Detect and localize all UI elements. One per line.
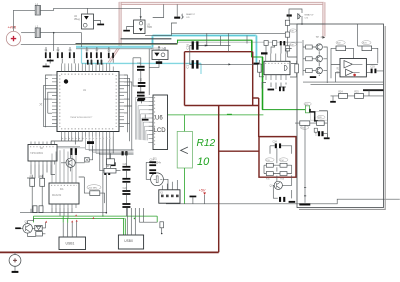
transistor T3	[316, 67, 322, 73]
wire R24 R25 links	[331, 90, 384, 99]
wire crystal links	[146, 162, 168, 189]
capacitor bank C7	[96, 50, 102, 58]
svg-text:C24: C24	[273, 141, 278, 143]
wire vertical from pink top to 7805 area	[153, 4, 164, 17]
ferrite bead L2	[35, 26, 40, 37]
svg-text:C20: C20	[123, 164, 128, 166]
wire black bus above MCU	[76, 42, 178, 44]
diode D2	[85, 158, 90, 162]
wire pink bus right vertical drop to TP header	[322, 2, 325, 36]
wire X3 top stubs	[162, 180, 177, 190]
diode D5	[298, 14, 301, 19]
svg-text:C1: C1	[45, 50, 49, 52]
ground near +5V	[190, 196, 197, 204]
svg-text:202 MHz: 202 MHz	[89, 187, 98, 189]
capacitor C15	[149, 169, 156, 174]
capacitor C27 bar top-left of U4	[261, 52, 268, 54]
ground at U2	[97, 24, 104, 26]
ground at C30	[324, 137, 330, 139]
capacitor bank C9 second row	[87, 60, 92, 65]
capacitor C6 top bar	[287, 14, 292, 16]
svg-text:+4V5: +4V5	[8, 26, 17, 30]
capacitor column C23	[122, 203, 130, 208]
wire thick segment y90	[363, 89, 384, 91]
IC U7 bottom-left	[49, 183, 79, 204]
connector X3	[159, 190, 180, 203]
resistor R20 above U4	[264, 41, 268, 46]
resistor TP base 1	[306, 45, 313, 49]
svg-text:C22: C22	[123, 188, 128, 190]
capacitor C12	[138, 79, 146, 87]
wire LCD pin riser bundle	[136, 98, 149, 143]
pink net terminal arrow	[322, 36, 325, 39]
resistor R4 vertical	[40, 176, 45, 186]
wire maroon bottom rail	[0, 251, 219, 253]
wire R22 R23 links	[331, 24, 378, 78]
capacitor small above R7	[104, 170, 110, 175]
wire green net from bus to right (selected net)	[178, 40, 311, 109]
capacitor bank C4	[86, 50, 92, 58]
capacitor bar col top	[122, 151, 128, 155]
capacitor at Q1	[70, 148, 77, 155]
svg-text:TP: TP	[316, 36, 319, 39]
capacitor C26 above U4	[280, 41, 286, 45]
wire U2 right to ground	[94, 21, 101, 24]
wire R3 R4 stubs	[32, 175, 42, 213]
resistor R26 green highlighted	[304, 102, 311, 113]
U7 top pins	[52, 149, 76, 183]
resistor R13 with oval label	[265, 158, 274, 167]
red net arrow left	[45, 221, 47, 223]
red error dot on U5	[353, 74, 356, 77]
svg-text:C7: C7	[96, 50, 100, 52]
wire C16 right with junction	[199, 44, 231, 46]
wire U3 left ground	[127, 27, 134, 30]
wire bottom net y212.7	[20, 212, 106, 214]
wire black long net y33.4	[171, 32, 285, 34]
svg-text:C17: C17	[185, 63, 189, 69]
resistor R7 horizontal	[90, 191, 100, 196]
diode pair D3	[35, 225, 42, 230]
wire R7 stubs	[79, 177, 105, 203]
capacitor C28 under U4	[279, 87, 285, 92]
svg-text:R15: R15	[266, 179, 271, 181]
resistor R28	[317, 115, 325, 125]
component small box	[107, 159, 115, 165]
battery B2 bottom-left circle	[9, 255, 21, 267]
capacitor C29 right of U5	[370, 66, 376, 73]
wire maroon horizontal y51.7	[185, 51, 253, 53]
resistor R16 lower	[280, 172, 287, 181]
IC X2 analog switch	[28, 145, 57, 162]
oscillator label oval	[87, 185, 101, 190]
svg-text:U6: U6	[155, 116, 163, 122]
capacitor C11	[137, 63, 145, 71]
svg-text:C2: C2	[57, 50, 61, 52]
resistor R3 vertical	[0, 0, 35, 186]
wire X2 bottom wires down	[27, 165, 55, 213]
ground under transistor ground2	[332, 100, 334, 101]
resistor R17 vertical column	[285, 20, 289, 25]
wire U1 right pins to riser bundle	[124, 75, 132, 150]
wire R12 bottom green	[184, 168, 186, 204]
battery B1 +4V5 source circle	[6, 31, 20, 45]
wire battery to ferrite L2	[21, 32, 35, 34]
resistor TP base 2	[306, 57, 313, 61]
annotation light box	[311, 112, 328, 121]
svg-text:C/6: C/6	[305, 17, 309, 19]
wire cyan net left segment above MCU	[76, 46, 153, 49]
svg-text:C29: C29	[370, 66, 375, 68]
pin number texture below MCU	[62, 138, 113, 140]
ground at cluster	[289, 201, 296, 203]
svg-text:MAX232: MAX232	[52, 194, 62, 197]
resistor R22 with oval	[336, 41, 346, 51]
svg-text:74HC4051N: 74HC4051N	[30, 152, 43, 155]
wire olive bus above MCU second line	[76, 44, 178, 46]
transistor T2	[316, 56, 322, 62]
capacitor C17	[185, 60, 198, 68]
wire gray long net y42	[178, 41, 303, 43]
capacitor bar above LCD bundle	[87, 141, 94, 144]
wire U4 left link	[259, 60, 296, 77]
resistor R24 bottom right	[338, 92, 347, 99]
U1 bottom pins	[62, 132, 114, 137]
wire maroon vertical from C17 area	[184, 52, 186, 106]
wire verticals between nets	[207, 33, 247, 51]
wire cyan net upper segment to right	[153, 34, 257, 37]
ground small right	[330, 101, 336, 103]
wire VBUS pink bus top horizontal	[119, 2, 324, 5]
small box C31	[314, 128, 317, 132]
ground above MCU left	[47, 60, 54, 64]
wire battery rail to bus	[21, 44, 76, 46]
svg-text:NMAY'07: NMAY'07	[305, 14, 315, 17]
capacitor column C21	[122, 178, 130, 183]
resistor R15 lower	[266, 172, 273, 181]
wire U3 right jog to cap	[145, 23, 177, 36]
wire jog up into 7805 line	[88, 7, 141, 9]
svg-text:R12: R12	[197, 138, 216, 149]
wire ferrite L2 to caps junction	[40, 32, 81, 34]
resistor R29 left of U4	[258, 64, 262, 72]
pin label texture MCU bottom	[61, 128, 114, 130]
wire maroon jog	[253, 97, 259, 99]
resistor R11 vertical	[160, 222, 164, 235]
capacitor bar small mid	[111, 162, 116, 166]
resistor TP base 3	[306, 69, 313, 73]
wire holder stubs	[149, 60, 159, 68]
ground at U3	[123, 30, 130, 32]
frame big box right	[297, 24, 385, 209]
wire green drops to USB1 pins	[63, 216, 67, 223]
svg-text:AMS1117 3V3: AMS1117 3V3	[151, 48, 167, 51]
wire cap C5 up to pink	[176, 4, 178, 16]
wire Q2 diode links	[28, 218, 46, 236]
capacitor column C22	[122, 188, 130, 195]
transistor Q2 bottom-left corner	[23, 221, 33, 233]
X2 bottom pins	[31, 161, 55, 165]
X2 top pins	[31, 142, 55, 145]
svg-text:C8: C8	[108, 50, 112, 52]
wire C17 right to IC U4	[199, 63, 263, 65]
wire top right net y24	[289, 9, 324, 24]
wire maroon vertical x252.7	[252, 52, 254, 106]
crystal G1	[151, 173, 164, 186]
ground under C13	[137, 99, 144, 101]
diode pair D4	[36, 232, 43, 236]
ground under cap bank	[43, 66, 50, 68]
wire gray net under cyan left	[76, 48, 153, 50]
wire pink bus left vertical drop to MCU	[119, 2, 122, 46]
capacitor C16	[185, 41, 198, 49]
wire cap stub	[141, 100, 143, 104]
pin label texture U7	[51, 184, 77, 186]
wire U2 top feed	[87, 8, 89, 14]
junction dot y24	[301, 23, 303, 25]
wire cyan net drop to capacitor	[255, 36, 257, 63]
wire green bottom bus left drop	[33, 216, 35, 222]
USB connector USB1	[59, 237, 86, 250]
wire caps left link	[133, 58, 141, 92]
tiny cross marker	[40, 103, 43, 106]
wire pink bus diagonal into MCU top-right	[109, 46, 121, 64]
junction dot on cyan	[158, 46, 160, 48]
red net arrow mid	[75, 214, 94, 219]
resistor R25 bottom right	[354, 92, 363, 99]
svg-text:C4: C4	[86, 50, 90, 52]
U6 left pins	[149, 98, 153, 143]
USB connector USB2	[118, 235, 143, 249]
maroon box transistor cluster outline	[259, 137, 296, 178]
wire maroon long vertical x218.7	[218, 106, 220, 253]
+5V flag	[203, 192, 206, 203]
capacitor C25 bottom cluster	[279, 197, 285, 202]
wire Q1 area links	[61, 146, 93, 171]
wire battery to ferrite L1	[14, 10, 36, 27]
pin label texture MCU left	[59, 75, 61, 127]
resistor R23 with oval	[362, 41, 372, 51]
svg-text:U5 LM: U5 LM	[337, 67, 340, 74]
wire green bottom bus line 1	[34, 215, 158, 217]
wire USB2 right jogs	[139, 221, 157, 223]
junction dots	[206, 45, 207, 46]
wire R8 links	[100, 153, 121, 171]
wire U1 left side loop wires	[44, 75, 52, 127]
green tick on maroon vertical	[227, 113, 232, 115]
battery holder G2 box	[151, 48, 169, 60]
capacitor column C20	[122, 164, 130, 171]
wire green bottom bus line 2	[34, 217, 125, 219]
resistor R19	[285, 43, 296, 51]
svg-text:NMAY'07: NMAY'07	[186, 13, 196, 16]
label NMAY07	[305, 14, 315, 20]
resistor R6 vertical small	[39, 206, 43, 213]
resistor R5 vertical small	[33, 206, 37, 213]
microcontroller U1 AT90USB1287 body	[57, 72, 119, 132]
wire U1 top pin risers	[62, 63, 110, 66]
resistor R21 above U4	[273, 41, 277, 46]
resistor R27	[300, 121, 310, 129]
resistor under holder	[156, 61, 162, 64]
wire cyan column drop	[148, 49, 150, 96]
op-amp U5 box	[337, 59, 367, 77]
wire transistor column links	[303, 40, 327, 83]
capacitor bar at cyan end	[254, 63, 260, 65]
svg-text:10: 10	[197, 156, 210, 168]
svg-text:C16: C16	[185, 44, 189, 50]
capacitor C14	[149, 159, 156, 166]
junction dots bottom bus	[102, 212, 107, 217]
ground mid column	[142, 115, 149, 121]
LCD module U6 box	[153, 95, 168, 150]
wire holder top stub	[159, 47, 165, 50]
wire ferrite L1 to regulator	[40, 8, 87, 10]
net tick marks	[304, 187, 306, 196]
wire maroon horizontal y105.5	[185, 105, 259, 107]
wire MCU bottom pins down-left to X2	[51, 137, 82, 145]
svg-text:R8: R8	[106, 166, 110, 168]
label C5	[181, 13, 196, 19]
svg-text:USBX: USBX	[124, 239, 134, 243]
wire C16 left link	[190, 46, 192, 65]
wire resistor column links	[288, 25, 298, 57]
capacitor C5 top bar	[174, 17, 180, 19]
transistor Q3 in cluster	[270, 181, 283, 189]
svg-text:R16: R16	[280, 179, 285, 181]
wire battery positive up	[14, 27, 16, 31]
svg-text:TMPA "AT90USB128T": TMPA "AT90USB128T"	[70, 116, 93, 119]
transistor Q1	[66, 158, 75, 167]
svg-text:VReg: VReg	[74, 19, 80, 21]
pin label texture MCU top	[61, 73, 114, 75]
wire U3 feed with arrow	[140, 8, 142, 20]
capacitor bank C1 above MCU	[45, 50, 51, 58]
wire maroon branch y151	[219, 150, 259, 152]
resistor R30 right of U4	[295, 64, 299, 73]
wire R12 top green	[184, 115, 186, 131]
capacitor bank C8	[108, 50, 114, 58]
junction dot green bus	[134, 218, 136, 220]
pin label texture MCU right	[115, 75, 117, 127]
wire inner vertical to bottom ground	[304, 125, 306, 202]
wire green net R12 top link	[166, 114, 263, 116]
wire Q3 links	[273, 175, 291, 198]
wire U5 links	[331, 65, 383, 83]
voltage regulator U3 7805	[134, 20, 153, 34]
U1 left pins	[52, 75, 57, 127]
wire thick dark bus top middle	[121, 38, 172, 40]
ferrite bead L1	[35, 4, 40, 15]
ground bottom inside box	[299, 203, 310, 205]
svg-text:LCD: LCD	[154, 128, 167, 134]
svg-text:C14: C14	[150, 159, 155, 161]
capacitor above LCD	[138, 98, 145, 100]
capacitor C13	[137, 92, 145, 97]
junction dot green end	[309, 109, 311, 111]
capacitor C24 in cluster	[273, 141, 282, 148]
wire green right branch to resistor	[156, 216, 158, 222]
wire cyan net lower segment	[82, 62, 202, 64]
wire maroon vertical into transistor cluster	[258, 98, 260, 137]
svg-text:Q3: Q3	[270, 186, 274, 188]
wire thin pair lines y82 y84.6	[303, 82, 384, 85]
svg-text:7805: 7805	[147, 27, 153, 29]
green net thick emphasis vertical	[252, 40, 263, 109]
red net arrows USB1	[71, 220, 78, 223]
wire U7 bottom pin drops	[52, 208, 72, 218]
wire cap bank links	[46, 47, 113, 63]
U4 top pins	[266, 54, 286, 62]
wire green drops to USB2 pins	[124, 218, 126, 235]
pin label texture LCD	[154, 97, 156, 147]
transistor T1	[316, 44, 322, 50]
wire drop x81.6 to cap bank	[81, 33, 83, 47]
wire bundle MCU bottom to LCD	[58, 137, 134, 155]
junction dot	[53, 32, 55, 34]
USB2 pins risers	[127, 208, 143, 235]
svg-text:R25: R25	[354, 92, 359, 94]
U1 top pins	[62, 67, 114, 72]
U1 right pins	[119, 75, 124, 127]
wire R27 R28 links	[295, 111, 327, 138]
wire U4 bottom links	[262, 83, 286, 90]
wire MCU bottom long drops to bottom nets	[103, 137, 113, 217]
U7 bottom pins	[52, 204, 76, 208]
resistor R18	[285, 29, 296, 37]
wire U4 top component links	[266, 45, 292, 53]
wire thick elbow from green net	[310, 110, 318, 121]
wire drop x53.7 to cap bank	[53, 33, 55, 51]
svg-text:+5V: +5V	[199, 189, 206, 193]
svg-text:C3: C3	[69, 50, 73, 52]
wire B2 top stem	[14, 252, 16, 254]
ground under U4	[268, 89, 275, 91]
pin label texture U4	[265, 62, 289, 64]
ground at Q2	[15, 227, 23, 229]
wire cluster cap links	[270, 146, 292, 154]
ground stem	[45, 63, 47, 65]
wire ground link	[324, 134, 328, 138]
capacitor bank C19 second row	[97, 60, 102, 65]
capacitor bank C3	[69, 50, 75, 58]
ground under transistor column	[310, 76, 316, 78]
svg-text:USB1: USB1	[66, 242, 75, 246]
voltage regulator U2 top-left	[74, 14, 94, 29]
capacitor C30	[315, 131, 323, 136]
resistor R14 with oval label	[279, 158, 288, 167]
wire cyan net lower verticals	[82, 47, 202, 74]
svg-text:C12: C12	[138, 79, 143, 81]
svg-text:C/6: C/6	[186, 17, 190, 19]
pin label texture X2	[30, 146, 55, 148]
label TP pins	[316, 36, 324, 39]
U1 pin1 dot	[64, 79, 68, 83]
resistor R8 horizontal mid	[104, 166, 116, 173]
USB1 pins	[63, 222, 76, 237]
U4 bottom pins	[266, 75, 286, 80]
ground under B2	[12, 266, 19, 273]
wire bottom net y203.8	[166, 199, 400, 204]
capacitor bank C2	[57, 50, 63, 58]
wire cluster resistor links	[264, 148, 292, 173]
wire capacitor column spine	[125, 152, 127, 216]
svg-text:R24: R24	[338, 92, 343, 94]
resistor R12 selected (green)	[177, 131, 192, 168]
wire maroon bottom rail light edge	[0, 252, 219, 254]
wire cyan net vertical step	[151, 36, 154, 48]
IC U4 middle	[262, 61, 290, 74]
